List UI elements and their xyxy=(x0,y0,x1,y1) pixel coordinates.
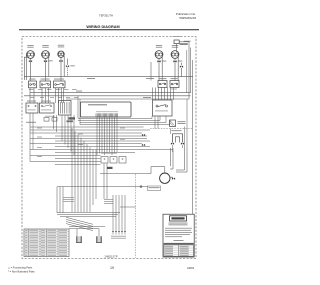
door switch cluster labels xyxy=(101,152,117,155)
surface element E1 left-front xyxy=(27,51,35,59)
surface element E5 warmer xyxy=(171,51,179,59)
surface switch S4 xyxy=(158,81,167,88)
wire right bus 0 xyxy=(186,50,188,93)
surface element E4 right-front xyxy=(155,51,163,59)
surface switch S5 xyxy=(170,81,179,88)
limiter L3 under E3 xyxy=(59,60,62,62)
small relay boxes mid xyxy=(44,116,75,122)
limiter L2 under E2 xyxy=(44,60,53,62)
surface switch S3 xyxy=(54,81,66,88)
surface switch S4 label xyxy=(159,77,167,80)
limiter L5 under E5 xyxy=(173,60,182,62)
EOC pin labels xyxy=(96,110,118,113)
connector row small xyxy=(111,232,126,239)
svg-text:AW02: AW02 xyxy=(187,266,195,270)
wire E4 drop xyxy=(159,57,162,81)
wire bus N horizontal xyxy=(24,95,191,97)
oven thermostat xyxy=(40,103,55,113)
wire diagonal bundle xyxy=(66,217,93,230)
wire breaker drop xyxy=(177,42,190,52)
wire right bus 1 xyxy=(188,42,190,99)
surface switch S2 label xyxy=(41,78,50,81)
door switch DS1 xyxy=(101,157,108,164)
info subtitle lines xyxy=(169,223,188,226)
limiter L3b offset xyxy=(66,65,75,67)
terminal block TB xyxy=(59,101,72,116)
broil element terminals xyxy=(142,134,145,146)
left mid label xyxy=(26,121,36,124)
wire EOC to relay runs xyxy=(78,96,170,125)
door switch DS2 xyxy=(110,157,117,164)
svg-text:△ = Functioning Parts: △ = Functioning Parts xyxy=(8,267,33,270)
bake element label xyxy=(172,129,182,132)
surface switch S5 label xyxy=(171,77,179,80)
bundle labels xyxy=(63,197,113,204)
surface element E4 right-front label xyxy=(156,45,162,48)
ground connector G2 xyxy=(97,236,102,242)
wire run lower xyxy=(57,186,148,188)
wire bus L1 horizontal xyxy=(24,77,193,79)
svg-text:WIRING DIAGRAM: WIRING DIAGRAM xyxy=(86,25,119,29)
wire relay down feeds xyxy=(155,99,187,148)
oven fuse F1 xyxy=(170,120,176,127)
wire run to motor xyxy=(100,167,165,174)
wire drops below right switches xyxy=(153,88,174,101)
EOC terminal pins xyxy=(96,113,118,117)
relay label xyxy=(143,96,151,99)
EOC internal text xyxy=(88,104,107,105)
surface switch S1 label xyxy=(29,78,36,81)
limiter L5b offset xyxy=(180,66,183,68)
surface element E2 left-rear label xyxy=(42,45,48,48)
panel dashed divider xyxy=(150,128,193,130)
wire color code table xyxy=(24,229,69,257)
svg-text:* = Non-Illustrated Parts: * = Non-Illustrated Parts xyxy=(8,270,35,273)
wire mid vertical drop xyxy=(120,174,136,258)
svg-text:TEF351/TH: TEF351/TH xyxy=(99,14,113,18)
wire bus N2 horizontal xyxy=(66,98,189,100)
surface element E3 right-rear label xyxy=(58,45,64,48)
fuse label xyxy=(178,121,186,124)
surface element E3 right-rear xyxy=(58,51,64,57)
wire right bus 3 xyxy=(192,60,194,214)
convection motor M1 xyxy=(160,173,170,183)
footer legend notes xyxy=(8,267,35,274)
electronic oven control EOC box xyxy=(81,102,132,117)
door switch DS3 xyxy=(119,157,126,164)
surface switch S2 xyxy=(40,81,51,88)
wire E3 drop xyxy=(61,56,68,81)
surface switch S3 label xyxy=(54,78,64,81)
right switch lower labels xyxy=(170,88,177,91)
ground connector G1 xyxy=(77,236,82,242)
wire harness horizontal runs xyxy=(30,127,173,165)
oven selector switch label xyxy=(27,100,51,103)
info code table xyxy=(164,243,194,256)
bus label row lower xyxy=(30,96,78,99)
wire left verticals feeding band xyxy=(30,113,74,162)
surface switch S1 xyxy=(29,81,37,88)
oven selector switch xyxy=(26,103,38,113)
surface element E5 warmer label xyxy=(172,45,178,48)
wire E2 drop xyxy=(46,57,49,82)
oven relay K1 xyxy=(153,100,173,116)
svg-text:19: 19 xyxy=(110,266,114,270)
warning title box xyxy=(170,216,187,221)
wire bus L2 horizontal xyxy=(30,91,191,93)
limiter L4 under E4 xyxy=(157,60,166,62)
wire EOC bottom drops xyxy=(97,117,117,155)
wire bundle verticals left xyxy=(57,128,107,213)
wire bundle to connectors xyxy=(69,195,125,236)
surface element E1 left-front label xyxy=(27,45,33,48)
wire mid vertical xyxy=(150,62,152,81)
wire right bus 2 xyxy=(190,48,192,93)
motor terminal tick xyxy=(170,177,175,180)
limiter L1 under E1 xyxy=(29,60,32,62)
header rule line xyxy=(19,29,199,31)
cluster junction blob xyxy=(107,167,113,169)
diagram dashed border frame xyxy=(22,37,196,259)
wire E1 left loop xyxy=(24,56,29,81)
wire E5 drop xyxy=(175,57,182,81)
info legend heading xyxy=(174,239,184,242)
wire E1 drop xyxy=(30,58,32,62)
surface element E2 left-rear xyxy=(42,51,50,59)
svg-text:5995266218: 5995266218 xyxy=(179,16,196,20)
thermal breaker label xyxy=(173,36,191,42)
svg-text:24B2157P: 24B2157P xyxy=(105,255,118,259)
wire drops below left switches xyxy=(30,88,64,103)
wire bundle horizontals xyxy=(57,212,120,216)
info block outer box xyxy=(163,214,194,257)
motor label box xyxy=(148,186,161,191)
info paragraph xyxy=(165,228,192,237)
bake element xyxy=(171,134,184,145)
wire harness labels xyxy=(37,128,125,157)
thermal breaker box top right xyxy=(174,40,188,45)
bus label row upper xyxy=(29,88,77,91)
wire motor feeds from top xyxy=(170,145,187,172)
